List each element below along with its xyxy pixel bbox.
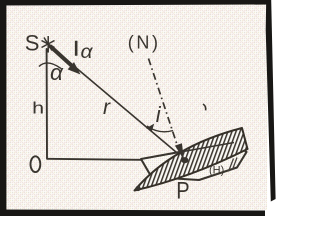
white plane H bbox=[141, 142, 247, 180]
normal (N) dash-dot line bbox=[149, 59, 178, 147]
point P dot bbox=[181, 157, 188, 163]
i arc arrowhead bbox=[146, 124, 154, 131]
source star S bbox=[42, 36, 55, 53]
svg-text:P: P bbox=[176, 177, 189, 204]
thick intensity arrow I_alpha bbox=[50, 46, 72, 66]
vertex blob of hatched plane bbox=[135, 186, 140, 191]
paper background bbox=[0, 0, 278, 216]
svg-text:r: r bbox=[103, 96, 111, 119]
alpha angle arc bbox=[39, 63, 61, 69]
normal arrowhead at P bbox=[175, 143, 184, 160]
svg-text:α: α bbox=[50, 60, 65, 85]
vertical line S to O bbox=[46, 49, 48, 158]
svg-text:S: S bbox=[25, 30, 40, 55]
label O (drawn as narrow oval) bbox=[31, 156, 41, 172]
svg-text:(N): (N) bbox=[128, 32, 161, 52]
stray hatch strokes on flap bbox=[229, 159, 234, 172]
svg-text:I: I bbox=[73, 37, 79, 60]
svg-text:h: h bbox=[32, 99, 44, 118]
border frame left bar bbox=[0, 0, 6, 216]
horizontal line O to plane H bbox=[47, 159, 141, 160]
stray tick mark bbox=[203, 104, 206, 110]
border frame top bar bbox=[0, 0, 271, 6]
edge of plane H crossing hatch bbox=[141, 143, 234, 160]
border frame bottom bar bbox=[0, 210, 265, 217]
stippled interior bbox=[5, 3, 267, 210]
border frame right bar bbox=[266, 0, 276, 202]
svg-text:α: α bbox=[81, 42, 94, 63]
svg-text:(H): (H) bbox=[209, 165, 224, 177]
hatched inclined surface at P bbox=[135, 128, 248, 191]
ray r from S to P bbox=[52, 48, 183, 158]
i angle arc bbox=[147, 126, 173, 132]
